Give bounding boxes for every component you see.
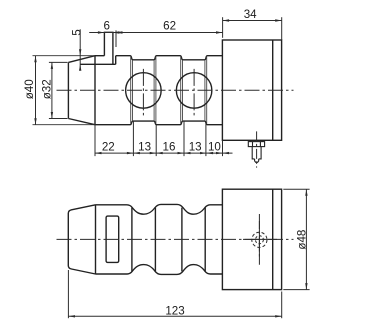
svg-text:13: 13 xyxy=(189,140,202,153)
svg-text:ø40: ø40 xyxy=(23,79,36,99)
svg-text:ø32: ø32 xyxy=(40,79,53,99)
svg-text:22: 22 xyxy=(102,140,115,153)
svg-text:34: 34 xyxy=(244,8,257,21)
svg-text:5: 5 xyxy=(71,29,84,35)
svg-text:123: 123 xyxy=(165,304,184,317)
svg-text:62: 62 xyxy=(163,20,176,33)
svg-text:16: 16 xyxy=(163,140,176,153)
svg-text:6: 6 xyxy=(103,20,109,33)
svg-text:10: 10 xyxy=(208,140,221,153)
svg-text:13: 13 xyxy=(138,140,151,153)
svg-text:ø48: ø48 xyxy=(296,230,309,250)
